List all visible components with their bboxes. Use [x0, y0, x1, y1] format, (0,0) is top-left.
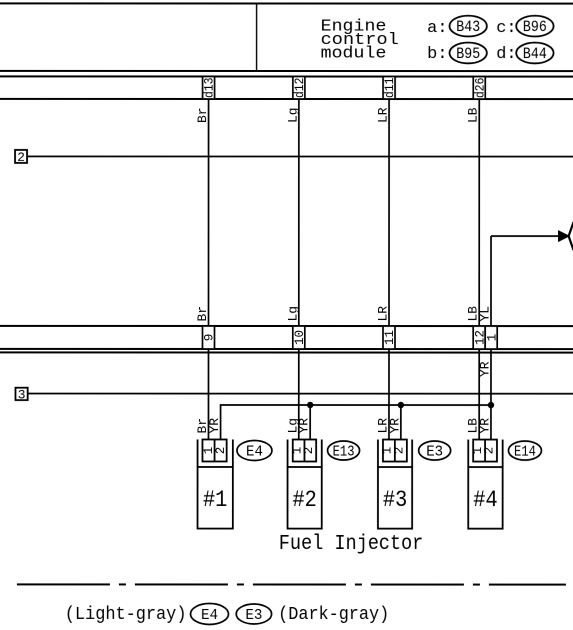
node E4 bottom ellipse — [190, 603, 228, 624]
svg-text:b:: b: — [427, 45, 447, 64]
pin 12 — [472, 326, 487, 349]
wire connector band bottom line — [0, 98, 573, 100]
svg-text:2: 2 — [214, 447, 228, 455]
svg-text:d11: d11 — [382, 77, 397, 98]
pin d26 — [472, 77, 487, 100]
node b: B95 — [427, 43, 487, 65]
connector injector 4 — [468, 440, 502, 529]
wire Lg column 2 lower — [298, 349, 300, 439]
svg-text:E4: E4 — [201, 607, 218, 624]
svg-text:d12: d12 — [292, 78, 307, 99]
svg-text:YR: YR — [207, 418, 222, 434]
svg-text:#4: #4 — [473, 487, 498, 513]
wire YR column 5 lower — [490, 349, 492, 440]
node E4 ellipse — [237, 440, 272, 460]
node 3 bus box — [15, 387, 27, 402]
junction dot at injector 2 — [307, 402, 313, 408]
wire connector band top line — [0, 75, 573, 77]
svg-text:Br: Br — [195, 107, 210, 123]
svg-text:11: 11 — [382, 330, 397, 345]
svg-text:1: 1 — [484, 333, 499, 341]
wire bus 2 line — [27, 155, 573, 157]
pin 10 — [292, 326, 307, 349]
node E14 ellipse — [508, 441, 541, 461]
wire LR column 3 upper — [388, 99, 390, 326]
node c: B96 — [496, 16, 553, 38]
wire drop to injector 3 pin 2 — [400, 405, 402, 440]
connector injector 2 — [288, 440, 322, 529]
wire top border line — [0, 2, 573, 4]
svg-text:3: 3 — [18, 387, 26, 402]
svg-text:B95: B95 — [456, 45, 480, 63]
pin d13 — [202, 76, 217, 99]
svg-text:2: 2 — [302, 447, 316, 455]
wire Br column 1 lower — [207, 349, 209, 440]
svg-text:Lg: Lg — [285, 306, 300, 322]
svg-text:Br: Br — [195, 306, 210, 322]
svg-text:B96: B96 — [523, 18, 547, 36]
node E13 ellipse — [328, 441, 360, 461]
svg-text:(Dark-gray): (Dark-gray) — [278, 605, 389, 625]
junction dot at injector 4 — [488, 402, 494, 408]
svg-text:a:: a: — [427, 19, 447, 38]
wire Br column 1 upper — [207, 99, 209, 326]
wire bus 3 line — [28, 393, 573, 395]
svg-text:YR: YR — [477, 361, 492, 377]
junction dot at injector 3 — [398, 402, 404, 408]
svg-text:B44: B44 — [523, 45, 547, 63]
node a: B43 — [427, 16, 487, 38]
connector injector 3 — [378, 440, 412, 529]
svg-text:d:: d: — [496, 45, 516, 64]
pin 1 — [484, 326, 499, 349]
svg-text:#3: #3 — [383, 487, 408, 513]
wire YL column 5 upper — [490, 236, 492, 326]
pin 11 — [382, 326, 397, 349]
svg-text:Fuel Injector: Fuel Injector — [279, 533, 424, 556]
pin d11 — [382, 77, 397, 100]
svg-text:E14: E14 — [514, 444, 536, 461]
svg-text:2: 2 — [392, 447, 406, 455]
wire to off-page arrow — [491, 235, 559, 237]
svg-text:(Light-gray): (Light-gray) — [65, 605, 187, 625]
pin 9 — [202, 326, 217, 349]
connector injector 1 — [198, 439, 233, 528]
node 2 bus box — [15, 150, 27, 165]
wire drop to injector 2 pin 2 — [309, 405, 311, 440]
svg-text:YR: YR — [297, 418, 312, 434]
wire middle band bottom line — [0, 348, 573, 350]
svg-text:LB: LB — [466, 107, 481, 123]
svg-text:YR: YR — [387, 418, 402, 434]
svg-text:#2: #2 — [292, 487, 317, 513]
wire LB column 4 lower — [478, 349, 480, 440]
node off-page bracket — [569, 222, 573, 250]
svg-text:YR: YR — [477, 418, 492, 434]
pin d12 — [292, 77, 307, 100]
label Engine control module U1 — [321, 17, 399, 63]
wire LB column 4 upper — [478, 99, 480, 326]
wire injector feed bus — [221, 405, 491, 440]
node d: B44 — [496, 43, 553, 65]
svg-text:module: module — [321, 45, 387, 64]
svg-text:9: 9 — [202, 334, 217, 342]
svg-text:10: 10 — [292, 330, 307, 345]
svg-text:E3: E3 — [426, 444, 443, 461]
svg-text:E3: E3 — [245, 607, 262, 624]
node E3 bottom ellipse — [236, 604, 271, 624]
svg-text:Lg: Lg — [285, 107, 300, 123]
svg-text:LR: LR — [376, 107, 391, 123]
svg-text:d26: d26 — [472, 78, 487, 99]
wire ECM bottom line — [0, 70, 573, 72]
svg-text:E4: E4 — [246, 443, 263, 460]
ECM box left edge — [256, 3, 258, 70]
wire middle band top line — [0, 325, 573, 327]
wire Lg column 2 upper — [298, 99, 300, 326]
svg-text:d13: d13 — [202, 78, 217, 99]
wire LR column 3 lower — [388, 349, 390, 440]
wire middle band second line — [0, 351, 573, 353]
svg-text:2: 2 — [17, 150, 25, 165]
svg-text:YL: YL — [477, 306, 492, 322]
svg-text:B43: B43 — [456, 18, 480, 36]
svg-text:c:: c: — [496, 19, 516, 38]
svg-text:#1: #1 — [203, 487, 228, 513]
wire dash-dot separator — [17, 583, 566, 585]
svg-text:E13: E13 — [333, 444, 355, 461]
svg-text:2: 2 — [483, 447, 497, 455]
svg-text:LR: LR — [375, 306, 390, 322]
node E3 ellipse — [419, 441, 451, 461]
node off-page arrowhead — [559, 231, 570, 241]
